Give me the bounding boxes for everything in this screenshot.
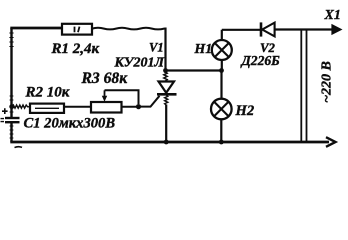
diode V2	[261, 22, 275, 36]
node: H2 to bottom rail	[219, 140, 224, 145]
label V1	[149, 41, 164, 55]
wire: bottom rail	[10, 141, 329, 144]
wire: R3 right lead	[122, 106, 139, 108]
node: cathode to bottom rail	[164, 140, 169, 145]
wire: H1 bottom lead	[221, 60, 223, 71]
wire: right drop line 2	[306, 30, 308, 143]
wire: left rail upper	[9, 28, 13, 117]
resistor R3 (variable)	[91, 90, 122, 112]
wire: wiper loop	[105, 90, 139, 104]
label H1	[194, 41, 213, 56]
label H2	[235, 103, 255, 119]
wire: lamp top to diode	[222, 29, 260, 31]
svg-text:V1: V1	[149, 41, 164, 55]
terminal X1 top arrow	[332, 25, 341, 34]
svg-text:КУ201Л: КУ201Л	[113, 55, 165, 70]
svg-text:R1 2,4к: R1 2,4к	[51, 41, 100, 57]
wire: R2 to R3	[64, 106, 91, 108]
svg-text:Д226Б: Д226Б	[240, 53, 281, 68]
thyristor V1	[157, 82, 177, 95]
resistor R2	[30, 104, 64, 113]
capacitor C1	[1, 118, 20, 122]
wire: right drop line 1	[300, 30, 302, 143]
lamp H1	[212, 40, 232, 60]
wire: diode to X1 arrow	[275, 28, 334, 30]
node: lamp junction	[219, 68, 224, 73]
label R3 value	[81, 70, 129, 87]
stray mark bottom left	[15, 146, 23, 149]
wire: top left to R1	[10, 27, 62, 30]
wire: vertical anode drop	[164, 28, 167, 82]
label X1	[324, 8, 341, 23]
svg-text:~220 В: ~220 В	[320, 61, 335, 103]
wire: H2 top lead	[220, 71, 222, 99]
wire: gate lead	[139, 96, 160, 107]
terminal X1 bottom arrow	[326, 137, 336, 147]
label C1 plus	[2, 108, 8, 114]
label R1 value	[51, 41, 100, 57]
label KU201L	[113, 55, 165, 70]
label 220V	[320, 61, 335, 103]
wire: anode junction to lamp node	[166, 69, 222, 71]
wire: left rail lower	[10, 123, 14, 142]
label D226B	[240, 53, 281, 68]
wire: H1 top lead	[221, 30, 223, 40]
label V2	[260, 41, 276, 55]
svg-text:Н1: Н1	[194, 41, 213, 56]
wire: H2 bottom lead	[220, 119, 222, 142]
svg-text:X1: X1	[324, 8, 341, 23]
node: anode junction	[163, 68, 168, 73]
svg-text:R2 10к: R2 10к	[25, 85, 70, 101]
svg-text:R3 68к: R3 68к	[81, 70, 129, 87]
node: R3 wiper junction	[136, 104, 141, 109]
node: R2 tap on left rail	[9, 104, 14, 109]
wire: R1 to top corner	[92, 28, 166, 30]
svg-text:С1 20мкх300В: С1 20мкх300В	[24, 116, 116, 132]
label C1 value	[24, 116, 116, 132]
wire: rail to R2	[12, 105, 30, 108]
wire: cathode down	[165, 95, 168, 142]
resistor R1	[62, 24, 92, 35]
svg-text:Н2: Н2	[235, 103, 255, 119]
label R2 value	[25, 85, 70, 101]
lamp H2	[211, 99, 232, 120]
